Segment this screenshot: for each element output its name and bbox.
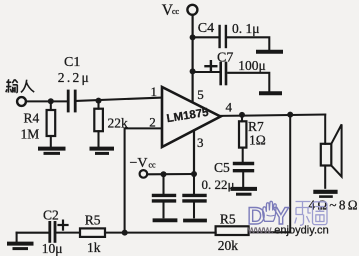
svg-text:1Ω: 1Ω — [249, 132, 266, 147]
wire to speaker — [324, 115, 326, 144]
node output R7 — [239, 112, 245, 118]
svg-text:cc: cc — [149, 161, 157, 170]
wire C1 to pin1 — [77, 98, 162, 101]
wire to C4 — [193, 36, 220, 38]
ground under R4 — [40, 147, 64, 151]
wire feedback vertical — [289, 115, 291, 233]
svg-text:C7: C7 — [217, 50, 233, 65]
svg-text:2: 2 — [149, 115, 156, 130]
wire output — [221, 115, 326, 116]
capacitor C7 plus sign — [206, 61, 217, 71]
node rail capA — [161, 171, 167, 177]
node Vcc-C7 — [190, 68, 196, 74]
resistor R5 20k — [216, 226, 249, 235]
svg-text:1: 1 — [151, 84, 158, 99]
svg-text:C5: C5 — [214, 160, 230, 175]
speaker LS 4-8 ohm — [321, 144, 332, 166]
svg-text:3: 3 — [197, 135, 204, 150]
wire to C7 — [193, 71, 220, 73]
node after C1 — [96, 98, 102, 104]
svg-text:C2: C2 — [43, 207, 59, 222]
wire ground to C2 — [17, 232, 49, 234]
op-amp U1 LM1875 — [162, 87, 221, 147]
wire Vcc to pin5 — [192, 15, 194, 101]
ground C4 — [258, 50, 281, 54]
wire C4 to ground — [227, 37, 269, 50]
node Vcc-C4 — [190, 34, 196, 40]
capacitor C1 — [68, 91, 75, 111]
svg-text:R5: R5 — [85, 212, 101, 227]
svg-text:R4: R4 — [24, 111, 40, 126]
node input junction — [48, 98, 54, 104]
watermark — [247, 201, 329, 236]
Vcc terminal — [187, 5, 197, 15]
ground speaker — [315, 190, 335, 194]
ground C7 — [261, 91, 280, 95]
negative Vcc terminal — [140, 170, 148, 178]
wire C2 to R5 — [56, 232, 80, 234]
bottom rail left ground — [16, 233, 18, 242]
svg-text:4Ω~8Ω: 4Ω~8Ω — [309, 197, 358, 212]
svg-text:4: 4 — [226, 99, 233, 114]
capacitor C2 — [50, 222, 55, 241]
svg-text:2.2μ: 2.2μ — [58, 70, 89, 85]
svg-text:C4: C4 — [198, 21, 214, 36]
svg-text:−V: −V — [130, 156, 148, 171]
bypass capacitor B — [193, 174, 195, 193]
node feedback bottom — [122, 230, 128, 236]
svg-text:1k: 1k — [87, 240, 101, 255]
svg-text:enjoydiy.cn: enjoydiy.cn — [274, 225, 329, 237]
bypass capacitor A — [162, 174, 164, 193]
capacitor C7 — [221, 63, 226, 84]
svg-text:5: 5 — [197, 87, 204, 102]
svg-text:C1: C1 — [64, 55, 80, 70]
node output feedback — [287, 112, 293, 118]
capacitor C4 — [220, 26, 226, 47]
resistor 22k — [97, 101, 99, 109]
wire pin3 — [193, 131, 195, 175]
svg-text:20k: 20k — [218, 238, 239, 253]
svg-text:22k: 22k — [108, 115, 129, 130]
svg-text:0. 1μ: 0. 1μ — [232, 21, 260, 36]
svg-text:www.: www. — [247, 225, 274, 237]
wire C7 to ground — [228, 73, 269, 91]
svg-text:R5: R5 — [220, 211, 236, 226]
input terminal 输入 — [17, 97, 26, 106]
resistor R4 — [50, 101, 52, 110]
wire R5 to node — [105, 232, 216, 234]
resistor R7 — [241, 115, 243, 121]
svg-text:10μ: 10μ — [42, 241, 63, 256]
svg-text:1M: 1M — [21, 126, 40, 141]
label 输入 — [6, 79, 34, 92]
wire pin2 feedback — [125, 128, 162, 232]
node rail pin3 — [191, 171, 197, 177]
svg-text:LM1875: LM1875 — [166, 107, 210, 126]
svg-text:cc: cc — [172, 7, 180, 16]
wire -Vcc rail — [147, 173, 194, 175]
svg-text:0. 22μ: 0. 22μ — [202, 177, 235, 192]
capacitor C5 — [235, 164, 253, 171]
svg-text:100μ: 100μ — [238, 58, 266, 73]
ground under 22k — [92, 147, 113, 151]
wire R5 20k to feedback — [249, 231, 291, 233]
ground C5 — [233, 187, 256, 191]
resistor R5 1k — [80, 228, 105, 237]
capacitor C2 plus sign — [59, 221, 68, 230]
wire input to C1 — [26, 100, 67, 102]
